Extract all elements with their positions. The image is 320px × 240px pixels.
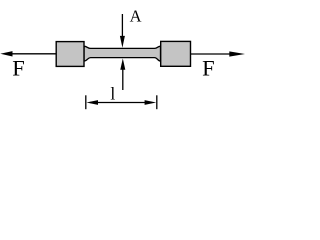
wire: dimension line [90,102,152,104]
arrowhead left force [0,51,12,56]
wire: section arrow (down) shaft [121,14,123,38]
wire: right force arrow shaft [191,53,232,55]
svg-text:A: A [130,7,142,26]
arrowhead right force [229,51,245,56]
dimension extension tick right [156,95,158,109]
wire: left force arrow shaft [10,53,56,55]
svg-text:F: F [12,55,25,80]
svg-text:F: F [202,55,215,80]
arrowhead section down [120,36,125,48]
arrowhead dimension right [145,100,157,105]
wire: gauge bar of specimen [84,46,161,61]
left grip block [56,42,84,67]
right grip block [161,41,191,66]
arrowhead dimension left [86,100,98,105]
dimension extension tick left [85,95,87,109]
svg-text:l: l [110,84,115,104]
arrowhead section up [120,58,125,69]
wire: section arrow (up) shaft [122,66,124,90]
